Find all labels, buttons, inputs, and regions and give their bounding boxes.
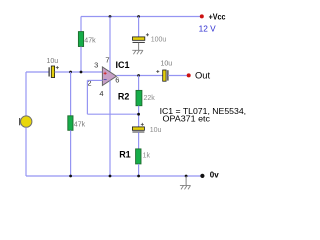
- resistor 47k (upper bias): [78, 32, 83, 47]
- svg-text:1k: 1k: [143, 152, 151, 159]
- node junction feedback: [137, 113, 140, 116]
- svg-text:100u: 100u: [151, 37, 167, 44]
- wire 47k upper drop from rail: [80, 17, 82, 33]
- wire mic to 0v rail: [25, 127, 27, 176]
- svg-text:4: 4: [99, 89, 103, 98]
- node junction output: [137, 74, 140, 77]
- node junction 100u on rail: [137, 15, 140, 18]
- wire 47k lower to 0v rail: [70, 130, 72, 176]
- microphone MIC: [20, 116, 32, 127]
- resistor R2: [136, 90, 142, 105]
- op-amp U1 IC1: [102, 67, 116, 86]
- wire feedback horizontal: [87, 113, 138, 115]
- node junction 47k lower on input line: [69, 71, 72, 74]
- wire 100u drop: [138, 17, 140, 38]
- svg-text:3: 3: [94, 61, 98, 70]
- svg-text:R2: R2: [118, 91, 130, 101]
- node junction 47k lower on rail: [69, 175, 72, 178]
- wire pin 4 drop: [109, 81, 111, 177]
- svg-text:12 V: 12 V: [199, 24, 217, 34]
- capacitor 10u input: [49, 66, 59, 78]
- svg-text:0v: 0v: [210, 171, 219, 180]
- svg-text:IC1: IC1: [116, 60, 130, 70]
- wire 47k upper to input node: [80, 47, 82, 73]
- resistor R1: [136, 149, 141, 164]
- node junction pin4 on rail: [109, 175, 112, 178]
- svg-text:47k: 47k: [74, 121, 86, 128]
- node junction 47k upper on input line: [80, 71, 83, 74]
- svg-text:OPA371 etc: OPA371 etc: [163, 114, 211, 124]
- svg-text:22k: 22k: [144, 95, 156, 102]
- ground (0v rail): [180, 185, 191, 189]
- capacitor 10u feedback: [132, 123, 144, 132]
- terminal dot +Vcc: [200, 14, 204, 18]
- wire ground stub on rail: [185, 176, 187, 185]
- terminal dot 0v: [200, 174, 204, 178]
- wire input line right segment: [55, 71, 103, 73]
- svg-text:R1: R1: [119, 150, 131, 160]
- ground (below 100u): [132, 50, 143, 54]
- svg-text:6: 6: [115, 75, 119, 84]
- svg-text:7: 7: [105, 56, 109, 65]
- wire output segment: [117, 75, 163, 77]
- wire 0v bottom rail: [26, 175, 202, 177]
- wire R2 to feedback junction: [138, 106, 140, 127]
- svg-text:47k: 47k: [84, 37, 96, 44]
- resistor 47k (lower bias): [68, 116, 73, 131]
- svg-text:10u: 10u: [47, 58, 59, 65]
- wire pin 7 supply drop: [109, 17, 111, 72]
- wire R1 to 0v rail: [138, 164, 140, 176]
- wire feedback cap to R1: [138, 132, 140, 149]
- capacitor 100u: [133, 33, 149, 42]
- node junction ground on rail: [185, 175, 188, 178]
- wire 100u ground stub: [138, 43, 140, 51]
- wire input line left segment: [26, 71, 49, 73]
- wire +Vcc top rail: [81, 16, 202, 18]
- wire output to Out terminal: [168, 75, 189, 77]
- svg-text:+Vcc: +Vcc: [209, 11, 226, 21]
- wire output node to R2: [138, 76, 140, 91]
- wire input corner drop to mic: [25, 72, 27, 116]
- wire feedback vertical: [86, 80, 88, 114]
- node junction pin7 on rail: [109, 15, 112, 18]
- svg-text:10u: 10u: [161, 61, 173, 68]
- capacitor 10u output: [156, 70, 168, 81]
- wire pin 2 stub: [87, 79, 102, 81]
- wire 47k lower drop: [70, 72, 72, 116]
- svg-text:Out: Out: [195, 70, 211, 81]
- node junction R1 on rail: [137, 175, 140, 178]
- svg-text:10u: 10u: [150, 127, 162, 134]
- terminal dot Out: [187, 73, 191, 77]
